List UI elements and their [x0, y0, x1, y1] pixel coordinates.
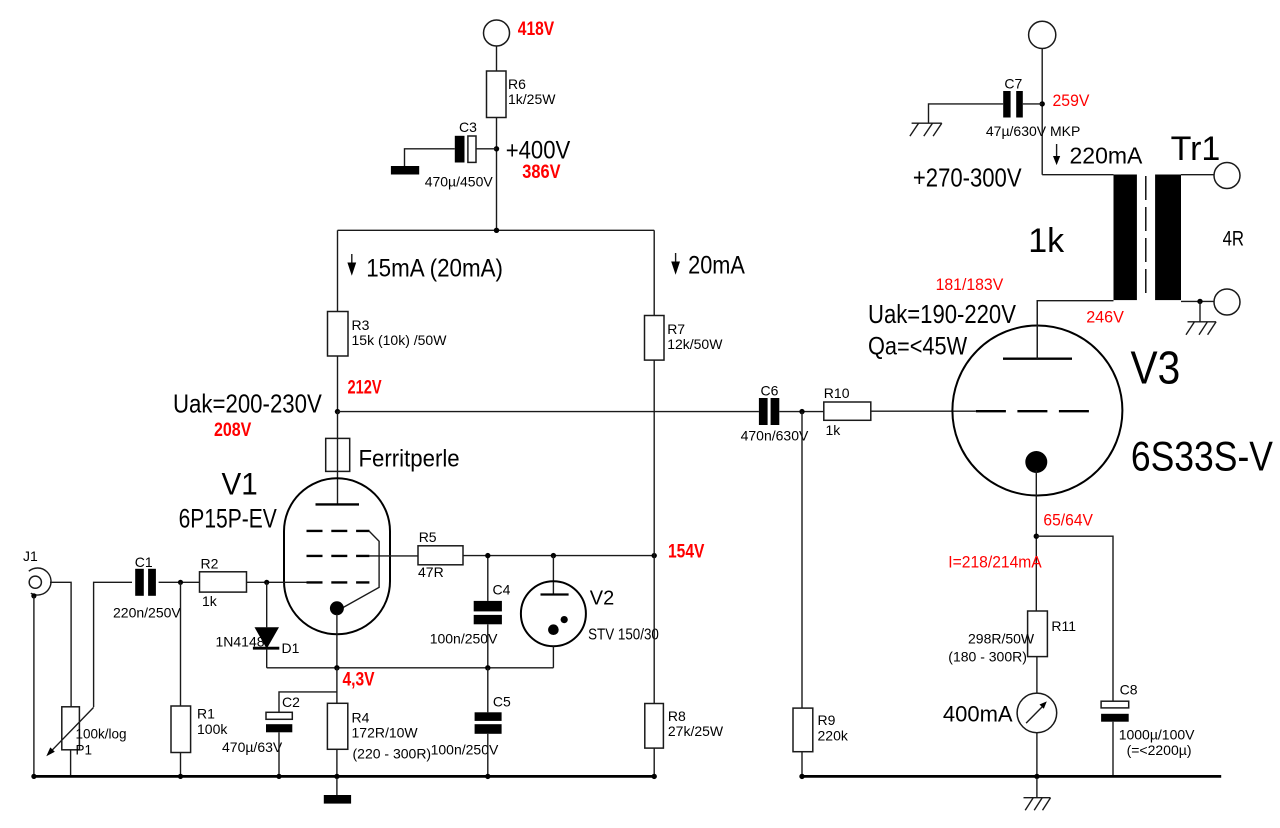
node label 259V: [1053, 92, 1090, 111]
svg-text:400mA: 400mA: [943, 702, 1013, 727]
current arrow 15mA: [347, 254, 356, 276]
junction 154V: [652, 553, 657, 558]
node label I=218/214mA: [948, 553, 1042, 572]
wire R1 to bus: [180, 753, 182, 777]
ground bar C3: [391, 166, 419, 175]
svg-text:1k/25W: 1k/25W: [508, 91, 556, 107]
coupling rail wire 212V to C6: [338, 411, 759, 413]
svg-text:47µ/630V MKP: 47µ/630V MKP: [986, 123, 1080, 139]
resistor R11: [948, 611, 1076, 665]
svg-text:R10: R10: [824, 385, 850, 401]
wire C7 to chassis: [929, 104, 1004, 123]
chassis ground secondary: [1186, 322, 1216, 335]
junction R5-V2: [551, 553, 556, 558]
capacitor C7: [986, 76, 1080, 139]
svg-text:(=<2200µ): (=<2200µ): [1127, 742, 1192, 758]
svg-text:220n/250V: 220n/250V: [113, 605, 181, 621]
wire R10 to V3 grid: [871, 410, 976, 412]
label 20mA: [688, 251, 745, 279]
svg-text:R4: R4: [352, 710, 370, 726]
wire junction to R9: [801, 412, 803, 708]
junction C4 cathode bus: [485, 665, 490, 670]
V1 cathode dot: [330, 601, 344, 615]
wire g2 to R5: [369, 555, 418, 557]
svg-text:Tr1: Tr1: [1171, 130, 1221, 168]
wire cathode jog to C2: [279, 692, 337, 712]
node label 212V: [348, 375, 383, 398]
wire R11 to meter: [1036, 657, 1038, 694]
wire C4 to cathode bus: [487, 624, 489, 668]
wire R6 to rail: [496, 118, 498, 231]
svg-text:100k: 100k: [197, 721, 228, 737]
svg-text:4R: 4R: [1223, 228, 1244, 251]
svg-text:470µ/450V: 470µ/450V: [425, 174, 494, 190]
supply terminal left 418V: [484, 20, 510, 46]
resistor R3: [328, 312, 448, 357]
svg-text:+270-300V: +270-300V: [913, 164, 1022, 193]
junction meter bus: [1034, 774, 1039, 779]
wire cathode to C8 branch: [1036, 536, 1113, 701]
svg-text:J1: J1: [23, 548, 38, 564]
svg-text:208V: 208V: [214, 419, 251, 441]
wire R4 to bus: [336, 749, 338, 776]
connector J1: [23, 548, 51, 595]
V3 anode plate: [1003, 358, 1072, 360]
diode D1 1N4148: [216, 627, 300, 656]
wire primary bottom to V3 plate: [1037, 301, 1113, 359]
wire g2 node down C4: [487, 556, 489, 601]
svg-text:1k: 1k: [826, 422, 842, 438]
wire junction to D1: [266, 582, 268, 627]
node label 208V: [214, 419, 251, 441]
wire J1 shield to ground bus: [33, 596, 35, 777]
resistor R9: [793, 708, 849, 752]
svg-text:212V: 212V: [348, 375, 383, 398]
svg-text:181/183V: 181/183V: [936, 275, 1004, 294]
node label 246V: [1086, 307, 1124, 326]
chassis ground C7: [910, 123, 942, 136]
wire J1 pin to P1 top: [50, 582, 71, 707]
svg-text:470µ/63V: 470µ/63V: [222, 739, 283, 755]
svg-text:C7: C7: [1004, 76, 1022, 92]
V3 cathode dot: [1025, 451, 1047, 473]
svg-text:STV 150/30: STV 150/30: [588, 627, 659, 644]
V1 grid g3 dashes: [307, 530, 370, 532]
capacitor C8: [1101, 682, 1195, 759]
resistor R1: [171, 706, 228, 753]
wire 212V node down through ferrite: [337, 412, 339, 505]
svg-text:15k (10k) /50W: 15k (10k) /50W: [352, 332, 448, 348]
label 1k primary: [1028, 222, 1065, 260]
svg-text:172R/10W: 172R/10W: [352, 725, 419, 741]
wire R2 to grid: [247, 581, 307, 583]
svg-text:C1: C1: [135, 554, 153, 570]
junction C7: [1040, 101, 1045, 106]
svg-text:R7: R7: [667, 321, 685, 337]
wire bus down C5: [487, 668, 489, 713]
wire C3 to ground: [405, 149, 455, 166]
wire R3 to 212V node: [337, 356, 339, 412]
svg-text:47R: 47R: [418, 564, 444, 580]
svg-text:C3: C3: [459, 119, 477, 135]
junction R5-C4: [485, 553, 490, 558]
svg-text:Qa=<45W: Qa=<45W: [868, 332, 968, 360]
svg-text:100k/log: 100k/log: [76, 727, 127, 742]
wire secondary to chassis: [1199, 301, 1201, 321]
junction secondary ground: [1197, 299, 1202, 304]
svg-text:4,3V: 4,3V: [343, 668, 375, 690]
wire D1 to cathode bus: [266, 649, 268, 668]
tube V1 envelope: [179, 467, 390, 635]
resistor R5: [418, 529, 463, 580]
resistor R8: [645, 704, 724, 749]
V3 cathode lead: [1035, 470, 1037, 611]
junction rail center: [494, 228, 499, 233]
svg-text:R11: R11: [1051, 618, 1076, 634]
svg-text:(180 - 300R): (180 - 300R): [948, 649, 1027, 665]
junction C6-R9: [799, 409, 804, 414]
wire C5 to bus: [487, 734, 489, 777]
label 4R secondary: [1223, 228, 1244, 251]
wire R8 to bus: [653, 748, 655, 776]
V1 anode plate: [316, 503, 360, 505]
wire wiper feed to C1: [94, 582, 132, 707]
wire V2 bottom: [552, 646, 554, 668]
tube V2 STV150/30: [521, 581, 659, 646]
junction 212V: [335, 409, 340, 414]
transformer core: [1145, 176, 1147, 299]
svg-text:15mA (20mA): 15mA (20mA): [366, 255, 503, 282]
svg-text:P1: P1: [76, 743, 93, 758]
label 15mA (20mA): [366, 255, 503, 282]
wire R7 to R8: [653, 360, 655, 703]
wire primary top: [1042, 174, 1113, 176]
node label 181/183V: [936, 275, 1004, 294]
svg-text:V1: V1: [222, 467, 258, 502]
capacitor C6: [741, 383, 809, 444]
V1 grid g2 dashes: [307, 555, 370, 557]
node label 4,3V: [343, 668, 375, 690]
svg-text:6P15P-EV: 6P15P-EV: [179, 504, 277, 534]
meter 400mA: [943, 693, 1057, 733]
V1 internal g3-cathode link: [343, 531, 379, 608]
svg-text:C8: C8: [1120, 682, 1138, 698]
resistor R6: [487, 71, 557, 118]
svg-text:470n/630V: 470n/630V: [741, 428, 809, 444]
current arrow 20mA: [671, 253, 680, 275]
junction grid-D1: [264, 580, 269, 585]
ferrite bead Ferritperle: [326, 438, 460, 471]
cathode bus wire: [267, 667, 554, 669]
wire supply to R6: [496, 46, 498, 71]
svg-text:298R/50W: 298R/50W: [968, 631, 1035, 647]
svg-text:R5: R5: [419, 529, 437, 545]
svg-text:V3: V3: [1131, 342, 1181, 394]
output terminal bottom: [1214, 289, 1240, 315]
label +270-300V: [913, 164, 1022, 193]
wire cathode to R4: [336, 668, 338, 704]
node label 418V: [518, 17, 555, 39]
svg-text:100n/250V: 100n/250V: [431, 742, 499, 758]
label Uak=200-230V: [173, 390, 323, 419]
svg-text:D1: D1: [282, 640, 300, 656]
label 220mA: [1070, 143, 1144, 169]
wire bus to chassis ground: [1036, 776, 1038, 797]
svg-text:R1: R1: [197, 706, 215, 722]
junction R4 bus: [334, 774, 339, 779]
chassis ground meter: [1024, 798, 1051, 811]
svg-text:220mA: 220mA: [1070, 143, 1144, 169]
label Uak=190-220V: [868, 300, 1016, 329]
left ground bus: [34, 775, 654, 778]
potentiometer P1: [46, 707, 126, 758]
svg-text:R2: R2: [201, 556, 219, 572]
svg-text:246V: 246V: [1086, 307, 1124, 326]
resistor R7: [645, 316, 724, 361]
V1 grid g1 dashes: [307, 581, 370, 583]
wire secondary bottom: [1181, 300, 1214, 302]
svg-text:C4: C4: [493, 582, 511, 598]
junction J1 shield: [31, 593, 36, 598]
svg-text:Uak=200-230V: Uak=200-230V: [173, 390, 323, 419]
transformer Tr1 secondary: [1155, 175, 1181, 301]
right ground bus: [802, 775, 1221, 778]
resistor R4: [327, 703, 431, 761]
label Qa=<45W: [868, 332, 968, 360]
wire R9 to bus: [801, 752, 803, 777]
capacitor C2: [222, 694, 300, 755]
node +400V junction: [494, 146, 499, 151]
supply terminal right: [1029, 21, 1056, 48]
svg-text:R6: R6: [508, 76, 526, 92]
svg-text:R3: R3: [352, 317, 370, 333]
node label +400V: [506, 137, 571, 165]
top rail wire: [338, 229, 655, 231]
label Tr1: [1171, 130, 1221, 168]
svg-text:I=218/214mA: I=218/214mA: [948, 553, 1042, 572]
node label 65/64V: [1043, 511, 1093, 530]
wire R5 to 154V node: [463, 555, 654, 557]
svg-text:27k/25W: 27k/25W: [668, 723, 724, 739]
svg-text:C6: C6: [761, 383, 779, 399]
V3 plate lead: [1036, 301, 1038, 359]
node label 154V: [668, 540, 705, 562]
wire C6 to R10: [779, 411, 824, 413]
svg-text:386V: 386V: [522, 161, 560, 183]
capacitor C1: [113, 554, 181, 621]
wire bus to main ground: [336, 776, 338, 795]
junction cathode: [334, 665, 339, 670]
junction C5 bus: [485, 774, 490, 779]
svg-text:1k: 1k: [1028, 222, 1065, 260]
transformer Tr1 primary: [1114, 175, 1137, 301]
junction V3 cathode: [1034, 534, 1039, 539]
tube V3 envelope: [952, 326, 1273, 496]
svg-text:154V: 154V: [668, 540, 705, 562]
svg-text:Uak=190-220V: Uak=190-220V: [868, 300, 1016, 329]
wire rail to R7: [653, 230, 655, 315]
svg-text:220k: 220k: [818, 728, 849, 744]
junction R1 bus: [178, 774, 183, 779]
capacitor C4: [430, 582, 511, 647]
junction C2 bus: [276, 774, 281, 779]
resistor R2: [200, 556, 247, 610]
wire meter to bus: [1036, 733, 1038, 777]
wire C1 to R2: [159, 581, 200, 583]
ground bar main: [324, 795, 351, 804]
svg-text:(220 - 300R): (220 - 300R): [353, 746, 432, 762]
output terminal top: [1214, 163, 1240, 189]
wire secondary top: [1181, 174, 1214, 176]
wire P1 to bus: [70, 750, 72, 777]
junction R9 bus: [799, 774, 804, 779]
svg-text:65/64V: 65/64V: [1043, 511, 1093, 530]
wire cathode down: [336, 614, 338, 668]
svg-text:1k: 1k: [202, 593, 218, 609]
svg-text:20mA: 20mA: [688, 251, 745, 279]
resistor R10: [824, 385, 871, 438]
capacitor C5: [431, 694, 511, 758]
wire C8 to bus: [1112, 722, 1114, 777]
svg-text:259V: 259V: [1053, 92, 1090, 111]
svg-text:R8: R8: [668, 708, 686, 724]
current arrow 220mA: [1053, 144, 1060, 165]
svg-text:418V: 418V: [518, 17, 555, 39]
wire junction to R1: [180, 582, 182, 706]
wire V2 top: [552, 556, 554, 595]
junction C1-R1: [178, 580, 183, 585]
svg-text:6S33S-V: 6S33S-V: [1131, 434, 1273, 480]
svg-text:V2: V2: [590, 587, 614, 609]
node label 386V: [522, 161, 560, 183]
junction J1 bus: [31, 774, 36, 779]
junction R8 bus: [652, 774, 657, 779]
V3 grid dashes: [976, 410, 1092, 412]
svg-text:C2: C2: [282, 694, 300, 710]
svg-text:1N4148: 1N4148: [216, 634, 265, 650]
svg-text:Ferritperle: Ferritperle: [359, 445, 460, 472]
svg-text:12k/50W: 12k/50W: [667, 336, 723, 352]
capacitor C3: [425, 119, 497, 190]
svg-text:1000µ/100V: 1000µ/100V: [1119, 727, 1195, 743]
wire C2 to bus: [278, 732, 280, 776]
svg-text:R9: R9: [818, 712, 836, 728]
wire supply to transformer: [1041, 49, 1043, 175]
svg-text:C5: C5: [493, 694, 511, 710]
wire rail to R3: [337, 230, 339, 311]
